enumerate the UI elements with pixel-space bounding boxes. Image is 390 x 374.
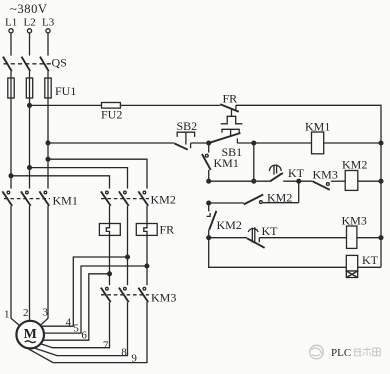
wire KM2 pole3 to FR heater [146, 206, 148, 228]
right bus [380, 143, 382, 267]
svg-text:QS: QS [52, 56, 67, 70]
coil KM1 [312, 132, 324, 154]
wire KT2 to KM3 coil [259, 237, 346, 239]
svg-text:KM2: KM2 [217, 218, 242, 232]
wire L3 tap to KM2 pole3 top [48, 159, 147, 188]
svg-text:KT: KT [288, 166, 305, 180]
contactor KM2 main contacts [101, 191, 149, 206]
node B junction [252, 141, 256, 145]
svg-text:L1: L1 [5, 17, 17, 29]
wire L2 terminal to QS [29, 33, 31, 56]
svg-text:8: 8 [121, 346, 127, 358]
pushbutton SB1 start [209, 129, 240, 143]
terminal L3 [46, 29, 50, 33]
wire L1 QS to FU1 [10, 71, 12, 188]
wire SB1 to node B [237, 142, 253, 144]
coil KM2 [345, 171, 358, 191]
wire motor lead 6 [43, 274, 110, 340]
junction rung4 left [207, 236, 211, 240]
junction L2 to KM2 pole2 [28, 166, 32, 170]
wire FR to right bus corner [236, 105, 381, 143]
wire motor lead 7 [41, 302, 110, 348]
svg-text:PLC: PLC [331, 347, 351, 359]
wire L1 terminal to QS [10, 33, 12, 56]
wire L3 terminal to QS [47, 33, 49, 56]
junction motor lead 4 tap [126, 255, 130, 259]
watermark logo [310, 345, 324, 359]
disconnect switch QS [3, 57, 53, 72]
svg-text:KM1: KM1 [214, 156, 239, 170]
junction right bus rung2 [379, 179, 383, 183]
svg-text:FU2: FU2 [101, 108, 122, 122]
thermal relay FR heater element 1 [99, 224, 120, 236]
junction L3 control feed [46, 141, 50, 145]
svg-text:6: 6 [81, 329, 87, 341]
wire L1 tap to KM2 pole1 top [11, 176, 110, 189]
thermal relay FR NC contact [220, 104, 242, 124]
svg-text:KT: KT [262, 224, 279, 238]
contactor KM1 main contacts [2, 191, 50, 206]
fuse FU1 wire through pole1 [10, 78, 12, 98]
pushbutton SB2 stop [175, 132, 195, 150]
wire L2 QS to FU1 [29, 71, 31, 188]
svg-text:KM3: KM3 [342, 214, 367, 228]
junction right bus rung4 [379, 236, 383, 240]
svg-text:KM2: KM2 [151, 193, 176, 207]
svg-text:L3: L3 [42, 17, 55, 29]
auxiliary contact KM1 self-hold [202, 143, 211, 181]
coil KM3 [347, 226, 357, 248]
auxiliary contact KM2 NC [207, 203, 217, 238]
wire KM1 coil to right bus [324, 142, 381, 144]
svg-text:5: 5 [73, 322, 79, 334]
auxiliary contact KM2 NO bypass [244, 195, 299, 205]
svg-text:M: M [24, 327, 37, 342]
wire L2 tap to KM2 pole2 top [30, 168, 128, 189]
node A junction [207, 141, 211, 145]
junction L3 to KM2 pole3 [46, 157, 50, 161]
wire FR2 down to KM3 [146, 235, 148, 285]
wire rung3 left segment [209, 202, 244, 204]
wire L3 QS to FU1 [47, 71, 49, 188]
wire KM3 coil to right bus [357, 237, 381, 239]
wire KT1 to junction [283, 180, 312, 182]
svg-text:~380V: ~380V [10, 2, 48, 16]
wire motor lead 9 [29, 302, 148, 363]
wire node B to KM1 coil [254, 142, 312, 144]
svg-text:KM3: KM3 [313, 168, 338, 182]
wire KM2 pole2 down [127, 206, 129, 257]
wire motor lead 8 [35, 302, 128, 356]
time relay KT delayed NC contact 2 [247, 227, 265, 248]
svg-text:KM1: KM1 [53, 194, 78, 208]
svg-text:KM3: KM3 [151, 291, 176, 305]
time relay coil KT [346, 255, 357, 277]
time relay KT delayed NC contact 1 [269, 165, 282, 182]
junction L1 to KM2 pole1 [9, 174, 13, 178]
fuse FU1 [8, 78, 51, 98]
wire KM2 pole2 to KM3 [127, 257, 129, 285]
svg-text:KM2: KM2 [342, 158, 367, 172]
junction L2 control tap [28, 104, 32, 108]
wire L3 feed to SB2 [48, 142, 175, 144]
wire rung5 left column [209, 238, 347, 268]
fuse FU1 wire through pole3 [47, 78, 49, 98]
junction rung2 bypass [297, 179, 301, 183]
fuse FU1 wire through pole2 [29, 78, 31, 98]
svg-text:SB2: SB2 [177, 119, 198, 133]
svg-text:9: 9 [131, 353, 137, 365]
motor M [16, 321, 44, 349]
auxiliary contact KM3 NO [313, 181, 346, 190]
terminal L1 [9, 29, 13, 33]
svg-text:4: 4 [66, 316, 72, 328]
wire KM2 pole1 to FR heater [109, 206, 111, 228]
wire node B down to rung2 [253, 143, 255, 181]
svg-text:KM2: KM2 [267, 191, 292, 205]
svg-text:FR: FR [223, 92, 238, 106]
wire rung4 left segment [209, 237, 247, 239]
wire rung2 left segment [209, 180, 270, 182]
wire L2 tap to FU2 [30, 104, 102, 106]
junction rung3 left [207, 201, 211, 205]
fuse FU2 [102, 103, 121, 109]
wire motor lead 5 [44, 266, 147, 333]
svg-text:KM1: KM1 [305, 120, 330, 134]
svg-text:L2: L2 [24, 17, 36, 29]
contactor KM3 main contacts [101, 287, 149, 302]
terminal L2 [27, 29, 31, 33]
junction right bus rung1 [379, 141, 383, 145]
watermark cjk glyphs [354, 347, 381, 356]
wire KT coil to right bus [358, 266, 381, 268]
junction rung2 left [207, 179, 211, 183]
wire phase3 KM1 to motor [41, 206, 48, 325]
svg-text:FR: FR [160, 223, 175, 237]
wire FR1 down to junction 6 [109, 235, 111, 285]
wire bypass up to rung2 [298, 181, 300, 203]
svg-text:1: 1 [4, 309, 10, 321]
watermark text [331, 347, 351, 359]
svg-text:FU1: FU1 [55, 84, 76, 98]
junction motor lead 5 tap [145, 264, 149, 268]
wire phase2 KM1 to motor [29, 206, 32, 322]
wire SB2 to node A [191, 142, 209, 144]
thermal relay FR heater element 2 [136, 224, 157, 236]
wire motor lead 4 [42, 257, 128, 326]
junction rung2 at B column [252, 179, 256, 183]
wire KM2 coil to right bus [358, 180, 381, 182]
svg-text:7: 7 [103, 339, 109, 351]
svg-text:KT: KT [362, 253, 379, 267]
svg-text:3: 3 [43, 307, 49, 319]
wire phase1 KM1 to motor [11, 206, 20, 326]
wire FU2 to FR contact [120, 104, 220, 106]
svg-text:2: 2 [23, 307, 29, 319]
junction motor lead 6 tap [108, 272, 112, 276]
